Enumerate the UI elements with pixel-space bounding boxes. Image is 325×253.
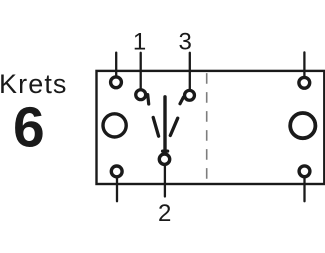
wire bottom-left corner terminal [116,177,118,201]
corner terminal top-left [111,77,122,88]
lever pivot collar [163,149,168,152]
terminal 1 contact ring [136,90,146,100]
corner terminal top-right [299,77,310,88]
mounting hole right [290,113,315,138]
corner terminal bottom-left [111,166,122,177]
wire terminal 3 [189,53,191,90]
lever position mark right [170,118,177,135]
lever position mark left [153,117,158,136]
panel divider dashed line [206,73,208,183]
svg-text:1: 1 [133,29,146,56]
svg-text:2: 2 [158,200,171,227]
svg-text:Krets: Krets [0,69,68,99]
terminal 3 contact ring [185,90,195,100]
corner terminal bottom-right [299,166,310,177]
mounting hole left [103,114,126,137]
wire terminal 2 [164,166,166,197]
switch body outline [97,71,325,184]
wire bottom-right corner terminal [303,177,305,201]
switch lever [163,97,166,153]
svg-text:6: 6 [13,96,45,160]
terminal 2 contact ring [159,154,169,164]
terminal 1 contact tail [148,95,149,104]
wire terminal 1 [140,53,142,90]
terminal 3 contact tail [180,97,183,104]
svg-text:3: 3 [179,29,192,56]
wire top-right corner terminal [303,52,305,77]
wire top-left corner terminal [115,53,117,77]
